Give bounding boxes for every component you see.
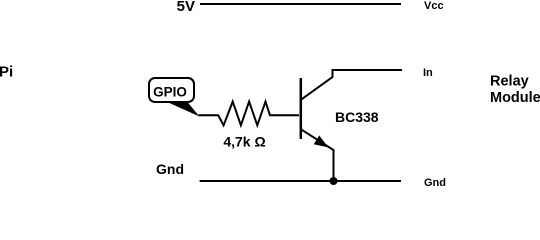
- svg-text:In: In: [423, 67, 433, 79]
- svg-text:Module: Module: [490, 90, 540, 106]
- svg-text:Vcc: Vcc: [424, 0, 444, 12]
- svg-text:Relay: Relay: [490, 74, 529, 90]
- svg-text:5V: 5V: [177, 0, 195, 15]
- svg-text:Pi: Pi: [0, 64, 13, 81]
- svg-text:Gnd: Gnd: [424, 177, 446, 187]
- svg-text:BC338: BC338: [335, 109, 379, 125]
- svg-text:Gnd: Gnd: [156, 161, 184, 177]
- svg-text:GPIO: GPIO: [153, 84, 187, 99]
- svg-text:4,7k Ω: 4,7k Ω: [223, 134, 265, 150]
